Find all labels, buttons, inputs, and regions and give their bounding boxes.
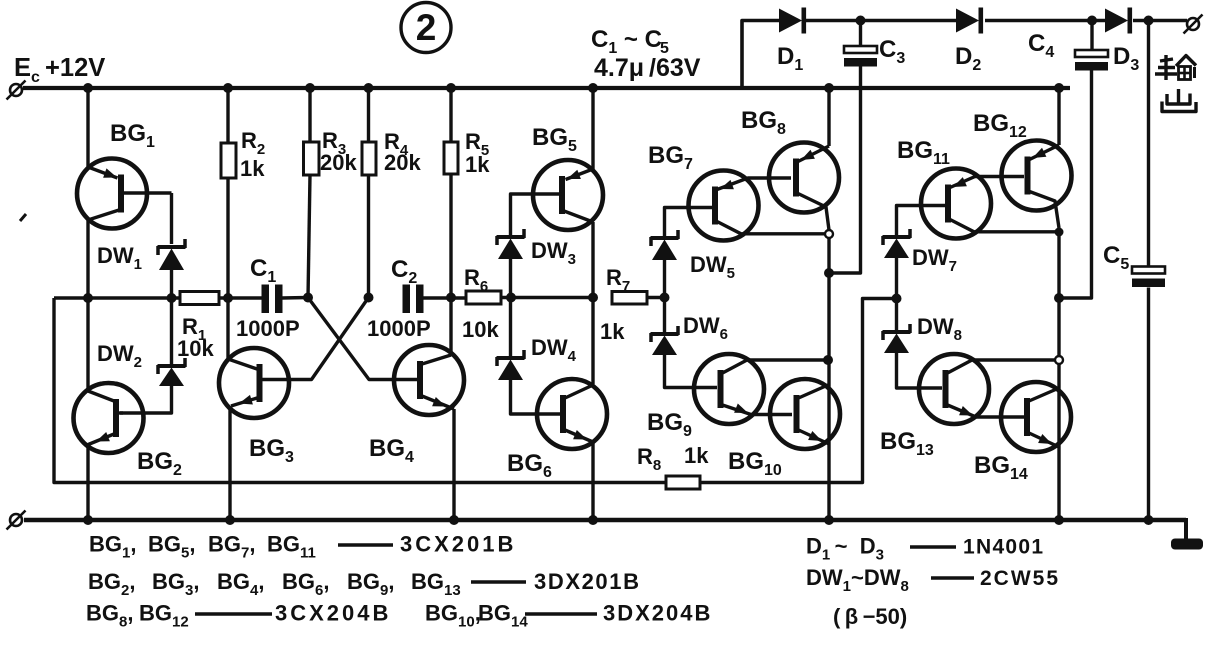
wire: rail to R2 — [226, 88, 229, 143]
node: BG9 collector junction — [823, 355, 833, 365]
zener DW5 — [651, 236, 679, 240]
wire: DW4 anode to BG6 base — [511, 380, 561, 414]
node: R5 bottom / BG4 collector — [446, 293, 456, 303]
transistor BG13 (NPN) — [919, 354, 989, 424]
node: rail junction R4 — [364, 83, 374, 93]
terminal: +12V input (top left) — [10, 84, 22, 96]
terminal: output (top right) — [1187, 18, 1199, 30]
transistor BG3 (NPN mirrored) — [219, 348, 289, 418]
wire: node down to DW2 — [170, 298, 173, 364]
svg-text:1k: 1k — [240, 156, 265, 181]
wire: doubler line from rail to D1 — [742, 21, 779, 89]
node: bottom rail x593 — [588, 515, 598, 525]
node: rail junction R5 — [446, 83, 456, 93]
zener DW1 — [158, 245, 186, 249]
wire: BG11 base to DW7 — [897, 206, 946, 236]
wire: R3 to node — [308, 175, 310, 298]
svg-text:1k: 1k — [684, 443, 709, 468]
resistor R2 — [221, 143, 236, 178]
wire: x88 down to BG2 collector — [86, 298, 89, 390]
wire: C3 top lead — [859, 21, 862, 47]
wire: DW7 anode down — [895, 258, 898, 299]
wire: R6 right to DW3 node — [501, 296, 530, 299]
svg-text:3DX204B: 3DX204B — [603, 601, 712, 626]
transistor BG14 (NPN) — [1001, 382, 1071, 452]
node: DW1/R1 junction — [167, 293, 177, 303]
figure number 2 in circle — [401, 3, 451, 53]
ground — [1171, 539, 1203, 550]
wire: DW2 anode to BG2 base — [120, 386, 172, 413]
wire: node down to BG6 collector — [591, 298, 594, 385]
wire: rail to R4 — [367, 88, 370, 142]
wire: C5 top lead from doubler line — [1147, 21, 1150, 267]
node: rail junction R3 — [305, 83, 315, 93]
node: R4 bottom / C2 left — [364, 293, 374, 303]
svg-text:2CW55: 2CW55 — [980, 567, 1060, 590]
wire: D1 cathode to D2 anode — [806, 19, 956, 23]
node: rail junction x829 — [824, 83, 834, 93]
node: BG11/BG12 collector junction — [1055, 228, 1064, 237]
wire: rail to R5 — [449, 88, 452, 142]
transistor BG6 (NPN) — [537, 379, 607, 449]
wire: BG2 emitter to bottom rail — [86, 445, 89, 520]
wire: DW8 anode to BG13 base — [897, 353, 943, 388]
wire: BG3 collector to node — [226, 298, 229, 358]
diode D3 — [1105, 9, 1128, 33]
label: chu (output) hand-drawn — [1177, 89, 1180, 105]
resistor R7 — [612, 292, 647, 305]
svg-text:3CX204B: 3CX204B — [275, 601, 391, 626]
wire: R8 to riser — [700, 299, 897, 483]
wire: C2 right to R5 node — [424, 296, 467, 299]
wire: BG5 base to DW3 — [511, 194, 560, 235]
wire: C1 right to R3 node — [282, 296, 308, 300]
wire: C4 bottom to x1059 — [1059, 71, 1092, 299]
zener DW6 — [651, 332, 679, 336]
svg-text:Ec +12V: Ec +12V — [14, 54, 105, 86]
transistor BG10 (NPN) — [770, 379, 840, 449]
zener DW4 — [497, 356, 525, 360]
transistor BG1 (PNP) — [77, 159, 147, 229]
node: R2 bottom / C1 left — [223, 293, 233, 303]
node: bottom rail x1148 — [1144, 515, 1154, 525]
transistor BG12 (PNP) — [1002, 141, 1072, 211]
node: C3 bottom junction — [824, 268, 834, 278]
wire: DW6 anode to BG9 base — [665, 355, 718, 388]
capacitor C4 (electrolytic) — [1075, 50, 1108, 57]
node: BG1/BG2 collector junction — [83, 293, 93, 303]
wire: rail to R3 — [308, 88, 311, 142]
svg-text:10k: 10k — [177, 336, 214, 361]
node: bottom rail x88 — [83, 515, 93, 525]
zener DW7 — [883, 235, 911, 239]
wire: C1 node to BG4 base (cross) — [308, 298, 418, 380]
diode D1 — [779, 9, 802, 33]
svg-text:2: 2 — [416, 7, 437, 48]
node: bottom rail x454 — [449, 515, 459, 525]
wire: BG6 emitter to bottom rail — [591, 442, 594, 520]
wire: x829 down to bottom rail — [827, 238, 830, 520]
svg-text:3CX201B: 3CX201B — [400, 532, 516, 557]
capacitor C2 — [403, 285, 411, 314]
capacitor C3 (electrolytic) — [844, 46, 877, 53]
node: C5 top junction — [1144, 16, 1154, 26]
wire: rail to BG5 emitter — [591, 88, 594, 169]
node: rail junction x1059 — [1054, 83, 1064, 93]
resistor R5 — [444, 142, 458, 174]
resistor R3 — [304, 142, 320, 175]
transistor BG4 (NPN) — [394, 345, 464, 415]
transistor BG7 (PNP) — [689, 171, 759, 241]
zener DW8 — [883, 330, 911, 334]
terminal: bottom rail (lower left) — [10, 514, 22, 526]
capacitor C1 — [262, 285, 270, 314]
wire: C4 top lead — [1090, 21, 1093, 51]
node: rail junction x593 — [588, 83, 598, 93]
wire: stray tick mark — [20, 214, 26, 221]
svg-text:1N4001: 1N4001 — [963, 536, 1044, 559]
wire: R1 node stretch — [54, 296, 180, 299]
label: output (shu) hand-drawn — [1160, 59, 1173, 61]
wire: node to R6 segment — [530, 296, 593, 299]
transistor BG2 (NPN) — [74, 383, 144, 453]
wire: R4 to node — [367, 175, 370, 298]
wire: BG1 base corner to DW1 — [170, 193, 173, 244]
node: DW7/DW8 junction — [892, 294, 902, 304]
node: DW3 anode junction — [506, 293, 516, 303]
svg-text:3DX201B: 3DX201B — [534, 569, 641, 594]
wire: D2 cathode to D3 anode — [985, 19, 1105, 23]
wire: node to DW4 — [509, 298, 512, 357]
svg-text:4.7μ /63V: 4.7μ /63V — [594, 54, 701, 82]
svg-text:1000P: 1000P — [367, 316, 431, 341]
wire: R2 to node — [226, 178, 229, 298]
svg-text:20k: 20k — [384, 150, 421, 175]
node: R7 left junction — [588, 293, 598, 303]
transistor BG11 (PNP) — [921, 169, 991, 239]
node: C4 top junction — [1087, 16, 1097, 26]
wire: R7 right to DW5 node — [647, 296, 665, 299]
wire: feedback line left bracket — [54, 298, 666, 483]
wire: BG5 collector to R7 node — [591, 222, 594, 298]
wire: DW3 anode down — [509, 259, 512, 298]
svg-text:1000P: 1000P — [236, 316, 300, 341]
wire: BG3 emitter to bottom rail — [228, 407, 231, 520]
svg-text:1k: 1k — [465, 152, 490, 177]
wire: BG7 base to DW5 — [665, 208, 713, 237]
node: C4 bottom junction — [1054, 293, 1064, 303]
diode D2 — [956, 9, 979, 33]
wire: DW1 anode to node — [170, 270, 173, 298]
wire: rail to BG1 emitter — [86, 88, 89, 167]
wire: x1059 down to bottom rail — [1057, 232, 1060, 520]
node: rail junction R2 — [223, 83, 233, 93]
node: BG7/BG8 collector junction (open) — [825, 230, 833, 238]
node: R3 bottom / C1 node — [303, 293, 313, 303]
transistor BG9 (NPN) — [694, 354, 764, 424]
node: rail junction x88 — [83, 83, 93, 93]
wire: C3 bottom to x829 — [829, 67, 861, 274]
wire: C2 node to BG3 base (cross) — [262, 298, 369, 380]
capacitor C5 (electrolytic) — [1132, 267, 1165, 274]
wire: bottom ground rail — [24, 518, 1186, 523]
node: DW5 anode junction — [660, 293, 670, 303]
wire: C5 bottom to rail — [1147, 288, 1150, 521]
wire: rail end to BG12 emitter — [1057, 88, 1060, 145]
transistor BG5 (PNP mirrored) — [533, 160, 603, 230]
wire: rail to BG8 emitter — [827, 88, 830, 146]
wire: BG1 collector down to R1 node — [86, 219, 89, 298]
wire: +12V top supply rail — [23, 86, 1070, 90]
resistor R1 — [180, 292, 219, 305]
wire: BG4 emitter to bottom rail — [452, 409, 455, 520]
node: C3 top junction — [856, 16, 866, 26]
wire: R5 to node — [449, 174, 452, 298]
wire: BG4 collector to R5 node — [449, 298, 452, 356]
svg-text:10k: 10k — [462, 317, 499, 342]
svg-text:20k: 20k — [320, 150, 357, 175]
svg-text:1k: 1k — [600, 319, 625, 344]
resistor R8 — [666, 476, 700, 489]
resistor R4 — [362, 142, 376, 175]
wire: R1 to R2 node — [219, 296, 262, 299]
node: BG13 collector junction (open) — [1055, 356, 1063, 364]
node: bottom rail x1059 — [1054, 515, 1064, 525]
svg-text:( β −50): ( β −50) — [833, 604, 907, 629]
svg-text:C1 ~ C: C1 ~ C — [591, 26, 662, 57]
wire: DW5 anode down — [663, 260, 666, 298]
wire: node to DW8 — [895, 299, 898, 331]
node: bottom rail x829 — [824, 515, 834, 525]
zener DW3 — [497, 235, 525, 239]
zener DW2 — [158, 364, 186, 368]
resistor R6 — [466, 291, 501, 304]
wire: D3 cathode to output terminal — [1133, 19, 1187, 23]
wire: ground stem — [1184, 518, 1188, 542]
wire: node to DW6 — [663, 298, 666, 333]
transistor BG8 (PNP) — [769, 143, 839, 213]
node: bottom rail x230 — [225, 515, 235, 525]
